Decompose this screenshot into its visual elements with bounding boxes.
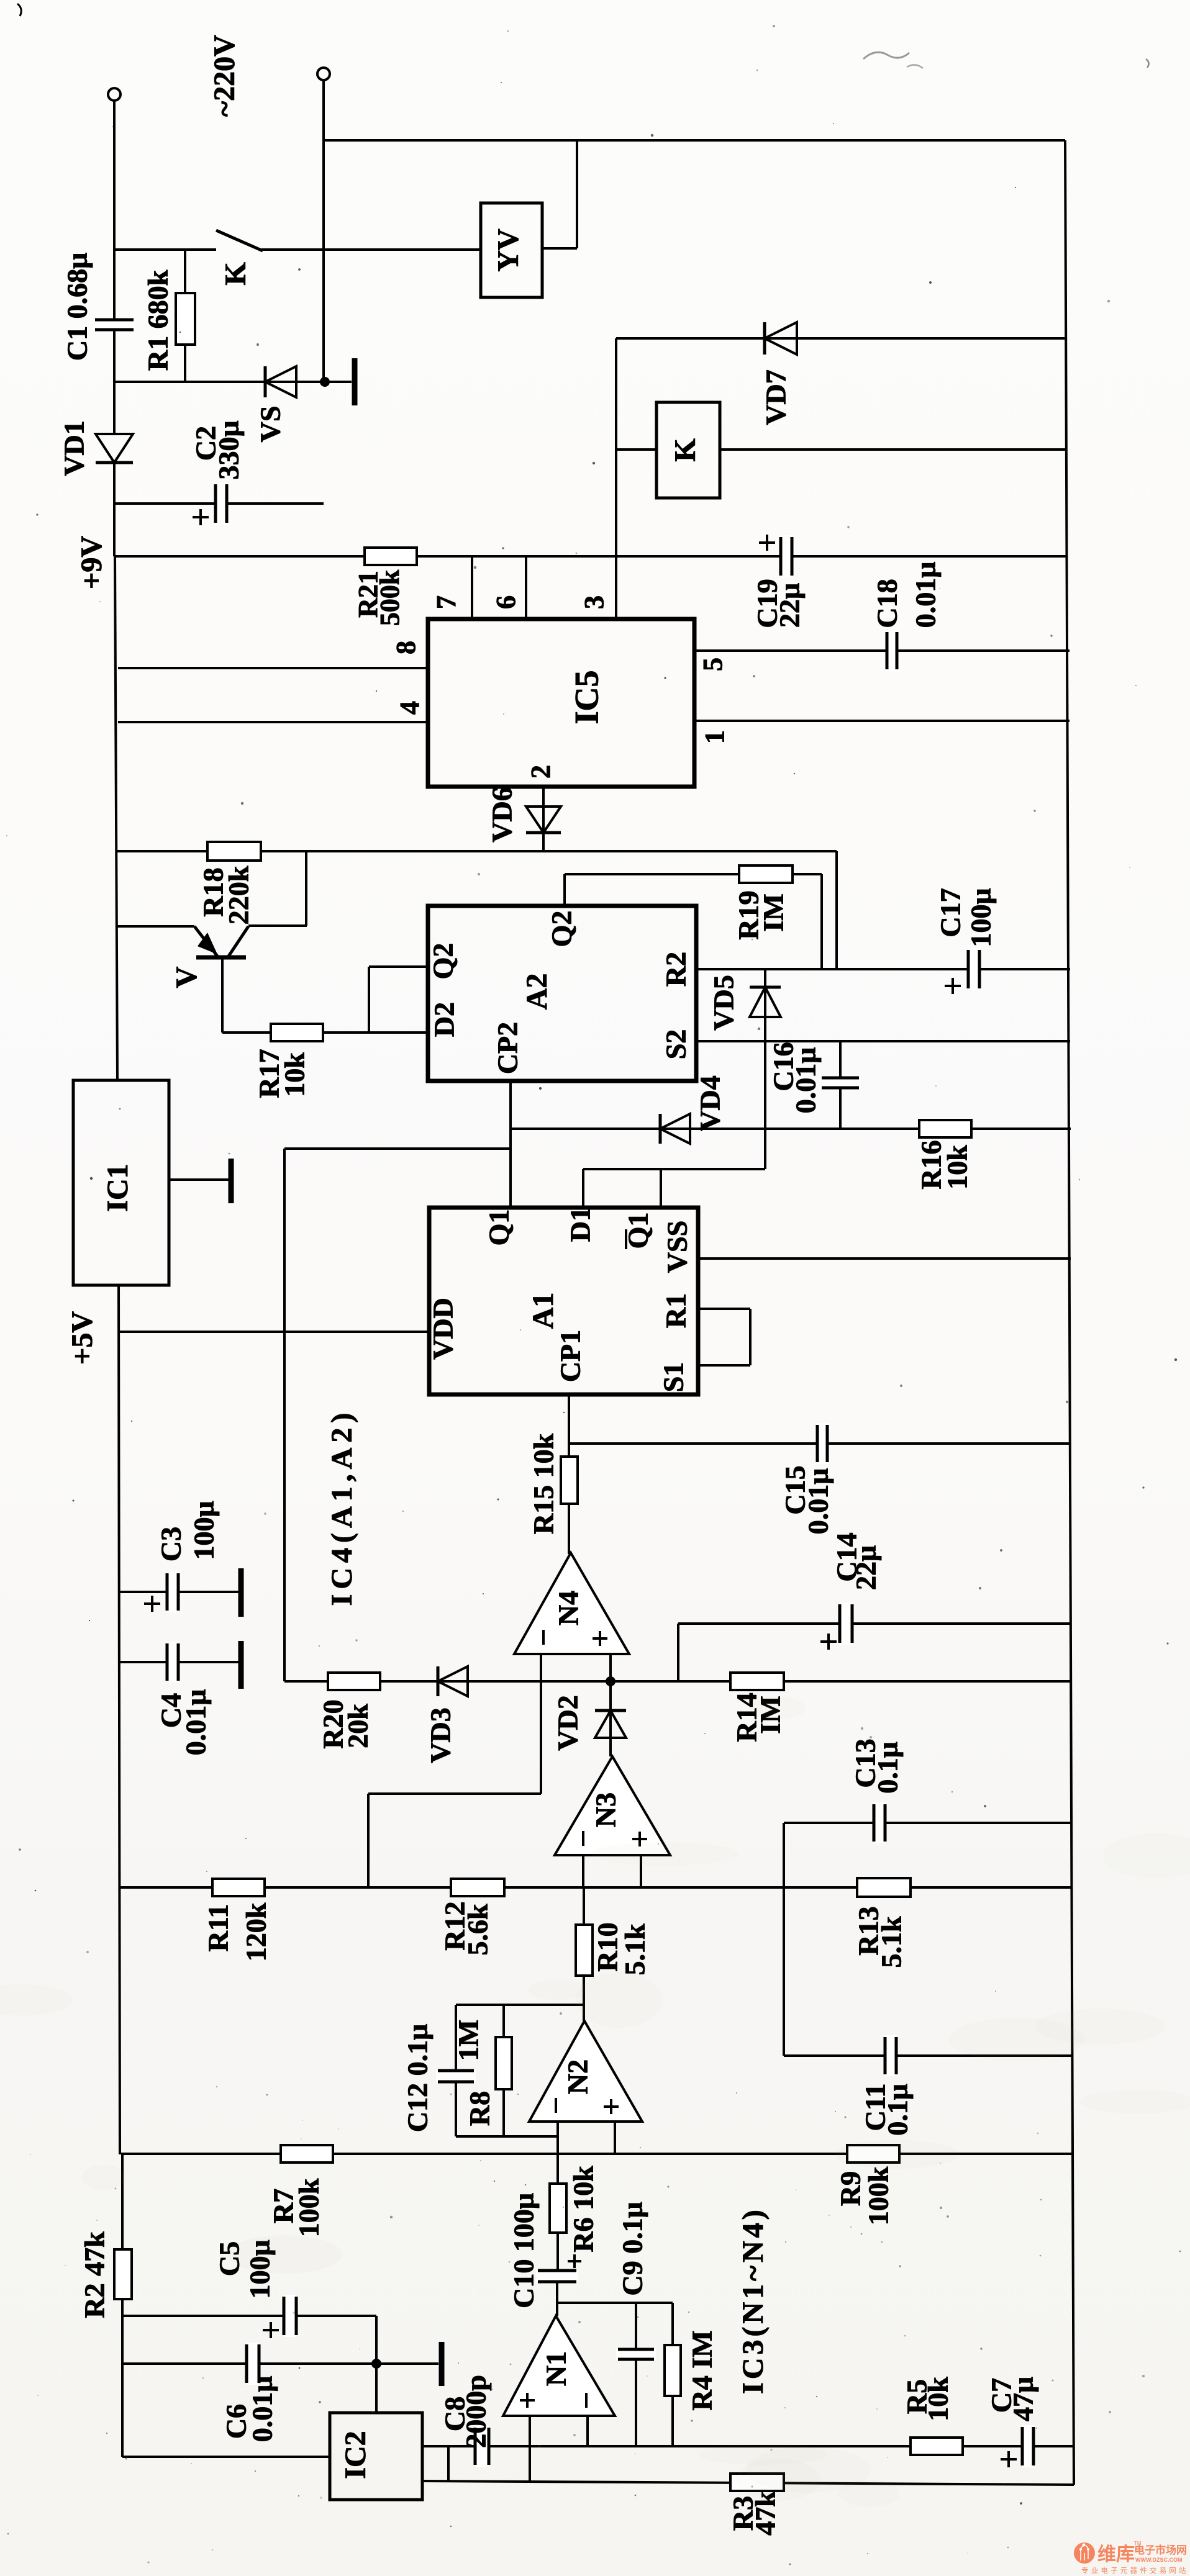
- svg-text:C9 0.1μ: C9 0.1μ: [617, 2202, 648, 2295]
- svg-text:YV: YV: [492, 228, 525, 272]
- svg-text:C17: C17: [935, 888, 966, 937]
- svg-text:IC2: IC2: [339, 2431, 372, 2479]
- svg-text:5: 5: [697, 658, 728, 671]
- svg-text:0.01μ: 0.01μ: [180, 1689, 212, 1756]
- svg-text:7: 7: [431, 595, 461, 609]
- svg-text:22μ: 22μ: [850, 1545, 882, 1590]
- svg-text:Q1: Q1: [483, 1209, 515, 1246]
- svg-text:1M: 1M: [453, 2020, 484, 2061]
- svg-text:N4: N4: [553, 1591, 584, 1625]
- svg-text:K: K: [669, 438, 702, 461]
- svg-text:VDD: VDD: [427, 1298, 459, 1360]
- svg-text:5.1k: 5.1k: [619, 1923, 651, 1976]
- svg-text:VS: VS: [255, 406, 286, 443]
- svg-text:6: 6: [491, 595, 521, 609]
- svg-text:100k: 100k: [293, 2178, 325, 2237]
- svg-text:IC4(A1,A2): IC4(A1,A2): [325, 1408, 358, 1606]
- svg-text:A1: A1: [527, 1293, 560, 1329]
- svg-text:IC5: IC5: [568, 670, 605, 724]
- svg-text:0.01μ: 0.01μ: [790, 1047, 822, 1114]
- svg-text:120k: 120k: [240, 1902, 272, 1961]
- svg-text:R4 IM: R4 IM: [686, 2330, 718, 2410]
- svg-text:10k: 10k: [922, 2377, 954, 2421]
- svg-text:10k: 10k: [942, 1145, 973, 1190]
- svg-text:R1 680k: R1 680k: [142, 269, 174, 371]
- svg-text:Q2: Q2: [546, 911, 578, 947]
- svg-text:S1: S1: [658, 1362, 689, 1393]
- svg-text:WWW.DZSC.COM: WWW.DZSC.COM: [1135, 2557, 1183, 2563]
- svg-text:8: 8: [391, 641, 421, 654]
- svg-text:R8: R8: [464, 2091, 496, 2126]
- svg-text:CP2: CP2: [492, 1022, 524, 1074]
- svg-text:10k: 10k: [279, 1052, 311, 1097]
- svg-text:~220V: ~220V: [208, 35, 241, 117]
- svg-text:IC1: IC1: [101, 1164, 134, 1211]
- svg-text:1: 1: [699, 730, 730, 744]
- svg-text:100k: 100k: [863, 2166, 894, 2225]
- svg-text:0.1μ: 0.1μ: [882, 2084, 914, 2136]
- svg-text:R15 10k: R15 10k: [528, 1433, 560, 1534]
- svg-text:VD7: VD7: [760, 369, 792, 425]
- svg-text:C18: C18: [871, 579, 903, 628]
- svg-text:R9: R9: [835, 2171, 866, 2206]
- svg-text:N2: N2: [562, 2059, 594, 2094]
- svg-text:5.6k: 5.6k: [462, 1904, 494, 1956]
- svg-text:VD5: VD5: [708, 975, 740, 1030]
- svg-text:0.01μ: 0.01μ: [910, 562, 942, 628]
- svg-text:维库: 维库: [1097, 2544, 1135, 2565]
- svg-text:100μ: 100μ: [188, 1501, 220, 1560]
- svg-text:VD6: VD6: [486, 787, 518, 842]
- svg-text:0.01μ: 0.01μ: [802, 1468, 834, 1535]
- svg-text:100μ: 100μ: [965, 888, 997, 947]
- svg-text:0.01μ: 0.01μ: [247, 2376, 278, 2443]
- svg-text:TM: TM: [1134, 2541, 1142, 2546]
- svg-text:D1: D1: [565, 1207, 596, 1242]
- svg-text:VSS: VSS: [661, 1221, 693, 1273]
- svg-text:N3: N3: [590, 1792, 622, 1827]
- svg-text:R1: R1: [660, 1293, 692, 1328]
- svg-text:VD1: VD1: [58, 420, 90, 476]
- svg-text:2: 2: [525, 765, 556, 779]
- svg-text:K: K: [219, 262, 252, 285]
- svg-text:22μ: 22μ: [774, 583, 806, 628]
- svg-text:0.1μ: 0.1μ: [872, 1742, 904, 1794]
- svg-text:S2: S2: [660, 1029, 692, 1060]
- svg-text:VD2: VD2: [552, 1695, 584, 1750]
- svg-text:专业电子元器件交易网站: 专业电子元器件交易网站: [1081, 2566, 1189, 2575]
- svg-text:C12 0.1μ: C12 0.1μ: [402, 2024, 434, 2132]
- svg-text:Q2: Q2: [427, 943, 459, 980]
- svg-text:N1: N1: [540, 2351, 572, 2386]
- svg-text:4: 4: [394, 701, 425, 715]
- svg-text:D2: D2: [429, 1002, 460, 1037]
- svg-text:20k: 20k: [342, 1704, 374, 1748]
- svg-text:C10 100μ: C10 100μ: [508, 2193, 540, 2308]
- svg-text:2000p: 2000p: [460, 2375, 492, 2448]
- svg-text:电子市场网: 电子市场网: [1134, 2544, 1187, 2556]
- svg-text:+9V: +9V: [75, 536, 108, 589]
- svg-text:C1 0.68μ: C1 0.68μ: [61, 253, 93, 361]
- svg-text:VD3: VD3: [425, 1707, 456, 1763]
- svg-text:+5V: +5V: [66, 1311, 99, 1365]
- svg-text:A2: A2: [520, 974, 553, 1010]
- svg-text:330μ: 330μ: [213, 420, 245, 479]
- svg-text:IM: IM: [758, 893, 789, 931]
- svg-text:R6 10k: R6 10k: [568, 2166, 599, 2253]
- svg-text:R2: R2: [660, 952, 692, 987]
- svg-text:3: 3: [579, 595, 609, 609]
- svg-text:47μ: 47μ: [1007, 2377, 1039, 2421]
- svg-text:IC3(N1~N4): IC3(N1~N4): [737, 2207, 770, 2394]
- svg-text:CP1: CP1: [555, 1330, 586, 1382]
- svg-text:C3: C3: [155, 1527, 187, 1561]
- svg-text:500k: 500k: [375, 569, 405, 626]
- svg-text:R11: R11: [202, 1904, 234, 1952]
- svg-text:5.1k: 5.1k: [876, 1916, 907, 1968]
- svg-text:R2 47k: R2 47k: [79, 2231, 111, 2318]
- svg-text:V: V: [170, 966, 203, 988]
- svg-text:220k: 220k: [223, 865, 255, 924]
- svg-text:VD4: VD4: [694, 1075, 726, 1131]
